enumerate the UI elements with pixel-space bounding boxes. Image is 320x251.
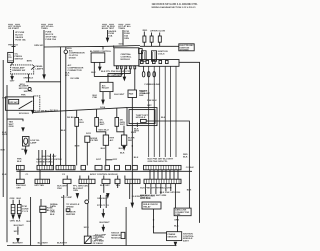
arrows below row2 (76, 194, 78, 198)
right edge wire (179, 62, 200, 223)
fuse F1 labels (8, 32, 26, 47)
cluster feed wires (38, 150, 40, 165)
svg-text:A/C COMP: A/C COMP (61, 196, 72, 199)
svg-text:BLK: BLK (161, 117, 166, 119)
connector column CC2 (152, 51, 157, 61)
svg-text:GRY: GRY (113, 159, 118, 161)
ignition control module box (167, 232, 182, 241)
wire pin2 arrow (123, 69, 125, 77)
svg-text:RELAY: RELAY (143, 205, 151, 208)
svg-text:GRN TAN ORN PPL: GRN TAN ORN PPL (148, 160, 169, 163)
dimmer dashed box (11, 65, 34, 74)
arrows under CN1 CN2 (12, 215, 14, 219)
wire dimmer feed (43, 47, 45, 75)
bottom middle wires (101, 195, 107, 208)
capacitor C1 (85, 136, 90, 142)
instrument band connector (139, 60, 179, 67)
svg-text:SWITCH: SWITCH (15, 58, 24, 60)
wire band W4 (164, 66, 166, 157)
switch lever (19, 101, 33, 109)
central control module U1 (114, 48, 139, 66)
svg-text:10A: 10A (108, 35, 112, 38)
blower controls box (90, 51, 112, 53)
svg-text:BLK: BLK (174, 225, 179, 227)
svg-text:BLU: BLU (79, 122, 84, 124)
svg-text:FAN: FAN (129, 93, 134, 96)
jog wire mid (106, 159, 113, 161)
wire drop to module top (113, 45, 115, 48)
svg-text:GRY TAN: GRY TAN (34, 184, 44, 187)
svg-text:1994 BUICK SKYLARK 3.1L ENGINE: 1994 BUICK SKYLARK 3.1L ENGINE CTRL (152, 3, 199, 6)
resistor box CB2 (121, 135, 126, 145)
svg-text:ORN: ORN (10, 198, 15, 200)
svg-text:S218: S218 (84, 227, 90, 229)
wires from blower box (93, 62, 95, 76)
svg-text:FILTER: FILTER (90, 140, 98, 142)
wire bottom bus S216 (26, 81, 61, 83)
svg-text:WHT GRN: WHT GRN (140, 198, 151, 200)
svg-text:ORN: ORN (124, 38, 129, 40)
fuse component double box (40, 199, 42, 206)
svg-text:ORN: ORN (73, 190, 78, 192)
DLC box (174, 208, 191, 216)
svg-text:FUSE 10A: FUSE 10A (15, 39, 26, 42)
svg-text:PPL: PPL (65, 75, 70, 77)
svg-text:S210 BLU: S210 BLU (19, 113, 30, 115)
svg-text:GRY: GRY (2, 98, 7, 100)
wire pin3 to relay (108, 69, 130, 83)
svg-text:MODULE: MODULE (136, 117, 146, 119)
bottom right bus (174, 242, 176, 245)
svg-text:PRS: PRS (8, 57, 11, 59)
svg-text:PNK BLK: PNK BLK (147, 100, 157, 102)
svg-text:ORN S212: ORN S212 (34, 45, 45, 47)
short drop wire with oval FL4 (143, 66, 145, 71)
resistor branch R1 (76, 110, 78, 117)
resistor branch R2 (96, 109, 98, 117)
svg-text:MODULE: MODULE (121, 59, 131, 61)
wire F3 arrow (107, 30, 109, 38)
wire from dimmer left with arrow (11, 74, 13, 77)
svg-text:MODULE: MODULE (111, 237, 121, 239)
svg-text:BLK: BLK (1, 150, 6, 152)
wire band W5 (170, 66, 172, 157)
indicator lamp L1 (23, 137, 30, 147)
svg-text:SENSOR: SENSOR (167, 236, 177, 238)
svg-text:A/C: A/C (110, 139, 114, 142)
wire module to DLC (146, 121, 189, 208)
svg-text:BLK PNK GRY ORN: BLK PNK GRY ORN (160, 192, 181, 194)
svg-text:LAMPS: LAMPS (36, 68, 44, 71)
wire band W1 (148, 66, 150, 157)
svg-text:DIODE: DIODE (95, 239, 102, 241)
svg-text:BLK PNK GRY: BLK PNK GRY (42, 156, 58, 158)
relay K1 (100, 82, 113, 91)
svg-text:ORN BLK: ORN BLK (97, 198, 107, 200)
svg-text:PNK/BLK: PNK/BLK (8, 45, 18, 47)
svg-text:DATA: DATA (50, 205, 56, 208)
wire band W2 (153, 66, 155, 157)
horn feed line (7, 119, 23, 121)
svg-text:GRY: GRY (147, 105, 152, 107)
svg-text:C280: C280 (175, 214, 181, 216)
connector row 1 (16, 165, 24, 169)
svg-text:CONNECTOR C1: CONNECTOR C1 (36, 161, 54, 163)
svg-text:SWITCH: SWITCH (24, 91, 33, 93)
connector row 2 (16, 179, 24, 183)
svg-text:PNK: PNK (17, 158, 22, 160)
label AFTER GLOW (150, 30, 166, 33)
svg-text:FUSIBLE LINK: FUSIBLE LINK (145, 84, 160, 86)
svg-text:OF DASH: OF DASH (93, 242, 103, 245)
bottom right vertical (125, 207, 127, 246)
svg-text:GRY: GRY (9, 61, 14, 63)
svg-text:RED: RED (143, 30, 148, 32)
long wire from fan box (131, 98, 133, 204)
svg-text:ORN BLK: ORN BLK (23, 78, 33, 80)
svg-text:BLK/WHT: BLK/WHT (38, 243, 49, 245)
svg-text:S217: S217 (96, 159, 102, 161)
module top-right connector tab (139, 49, 143, 54)
svg-text:WHT: WHT (134, 131, 140, 133)
svg-text:DIODE: DIODE (69, 58, 76, 60)
bottom right feed wires (145, 184, 147, 194)
svg-text:S209: S209 (119, 43, 125, 45)
text under row 2 (16, 184, 192, 199)
inline connector oval on W1 (147, 72, 150, 77)
svg-text:BLK/WHT: BLK/WHT (100, 222, 111, 224)
mid cluster wire (60, 47, 62, 165)
theft module box inner (129, 110, 155, 124)
connector dashed column (34, 96, 40, 111)
svg-text:S211: S211 (86, 133, 92, 135)
svg-text:SPEED: SPEED (66, 207, 74, 209)
motor M1 (28, 87, 31, 90)
svg-text:COILS: COILS (158, 54, 165, 56)
svg-text:BRN: BRN (27, 61, 32, 63)
svg-text:ASSY: ASSY (183, 240, 189, 243)
wire from dimmer right (28, 74, 30, 82)
resistor branch R4 (116, 108, 118, 117)
svg-text:CONNECTOR: CONNECTOR (68, 70, 82, 72)
row divider line (16, 170, 192, 172)
arrow end of long wire (131, 203, 133, 207)
svg-text:BRN: BRN (75, 146, 80, 148)
title text (152, 3, 199, 9)
bottom left connector CN1 (10, 198, 22, 200)
coolant fan box B1 (128, 90, 137, 98)
fuse label F3 (102, 23, 114, 25)
svg-text:BLK: BLK (183, 156, 188, 158)
bottom bus line (7, 245, 177, 247)
A/C switch assembly box (6, 97, 34, 110)
svg-text:AFTER GLOW: AFTER GLOW (150, 30, 166, 33)
svg-text:BLK/WHT: BLK/WHT (57, 243, 68, 245)
splice label S214 (100, 106, 106, 109)
svg-text:SYSTEM: SYSTEM (180, 50, 189, 52)
svg-text:BLK: BLK (2, 174, 7, 176)
svg-text:GRN: GRN (9, 126, 14, 128)
splice label (86, 129, 109, 135)
blower motor labels (19, 86, 33, 97)
svg-text:ORN: ORN (174, 220, 179, 222)
theft module box outer (127, 108, 157, 126)
svg-text:ORN: ORN (10, 221, 15, 223)
svg-text:PCM C1 C2: PCM C1 C2 (97, 205, 109, 207)
svg-text:S216: S216 (20, 84, 26, 86)
svg-text:BLK: BLK (50, 214, 55, 216)
svg-text:RES: RES (128, 140, 133, 142)
svg-text:C2 BLK: C2 BLK (186, 167, 194, 169)
ignition label box (179, 44, 194, 51)
svg-text:FUSE 15A: FUSE 15A (46, 38, 57, 41)
wire A/C request (94, 76, 121, 78)
bus arrow (32, 110, 35, 113)
wire band W6 (175, 66, 177, 157)
svg-text:MOTOR: MOTOR (19, 88, 28, 90)
relay box bottom (142, 202, 161, 209)
svg-text:BLK WHT: BLK WHT (114, 94, 125, 96)
svg-text:GRY: GRY (16, 188, 21, 190)
splice labels (61, 130, 66, 132)
wire pin4 to fan box (134, 69, 136, 90)
mid-left long wire (30, 197, 32, 246)
svg-text:OFF A/C: OFF A/C (9, 101, 18, 104)
fusible link FL2 (151, 33, 153, 37)
label ignition coils (158, 51, 168, 55)
knock module labels (95, 234, 106, 242)
wire below relay box (154, 209, 167, 233)
svg-text:DK BLU: DK BLU (67, 117, 76, 119)
svg-text:BLK: BLK (134, 157, 139, 159)
svg-text:BLK: BLK (120, 152, 125, 154)
wire pin1 (120, 69, 122, 77)
svg-text:C1 C2: C1 C2 (22, 211, 29, 213)
fuse label F4 (118, 23, 130, 25)
svg-text:WIRING DIAGRAM SECTION 2 OF 4: WIRING DIAGRAM SECTION 2 OF 4 FIG 21 (152, 6, 197, 9)
svg-text:2 GA: 2 GA (140, 92, 146, 95)
connector column CC1 (142, 51, 147, 61)
relay contact box inside module (141, 119, 147, 122)
wire F4 drop (122, 30, 124, 45)
wire F2 drop (43, 30, 45, 47)
svg-text:BLK/WHT: BLK/WHT (14, 225, 25, 227)
svg-text:S215 BLU: S215 BLU (98, 129, 109, 131)
blower resistor bus (33, 108, 127, 113)
svg-text:OIL: OIL (8, 55, 11, 57)
svg-text:BLK: BLK (61, 130, 66, 132)
oil pressure switch box (8, 52, 14, 62)
inline connector oval on W2 (153, 72, 156, 77)
svg-text:BLK/WHT: BLK/WHT (13, 243, 24, 245)
fusible link FL1 (143, 30, 148, 32)
svg-text:WHT: WHT (2, 134, 8, 136)
svg-text:BLK: BLK (22, 149, 27, 151)
ground G1 (65, 47, 67, 50)
fuse label F2 HOT AT ALL TIMES (41, 23, 53, 25)
splice dot on long wire (132, 145, 133, 146)
svg-text:DK GRN: DK GRN (71, 78, 80, 80)
fuse label F1 HOT IN RUN (8, 23, 20, 25)
svg-text:DIMMER SW: DIMMER SW (12, 70, 26, 72)
svg-text:BLK: BLK (17, 198, 22, 200)
wire labels above right row (148, 158, 174, 162)
ground G2 (85, 200, 89, 204)
svg-text:BUFFER: BUFFER (66, 214, 75, 216)
splice bus S212-S209 (44, 46, 103, 49)
svg-text:LAMP: LAMP (30, 141, 37, 144)
fusible link FL3 (159, 33, 161, 37)
wire splice S217 (17, 227, 19, 235)
wire from G1 down (65, 54, 67, 166)
switch wiper symbol (31, 66, 35, 69)
svg-text:BLK: BLK (16, 221, 21, 223)
svg-text:BLK: BLK (17, 161, 22, 163)
svg-text:BLK: BLK (101, 148, 106, 150)
wire bus to ignition box (140, 45, 179, 47)
wire from module bottom (123, 126, 125, 132)
inter-row stubs (20, 170, 178, 179)
svg-text:TIMES: TIMES (41, 28, 48, 30)
svg-text:BLK: BLK (119, 148, 124, 150)
left main wire 2 (6, 85, 8, 242)
svg-text:PNK: PNK (21, 95, 26, 97)
wires from relay (102, 92, 104, 100)
extra wire labels (2, 98, 188, 176)
svg-text:GRY: GRY (10, 80, 15, 82)
bottom left connector CN2 (17, 205, 21, 214)
wire band W3 (159, 66, 161, 157)
DLC feed wires (165, 184, 167, 191)
svg-text:OR START: OR START (8, 27, 20, 30)
serial data wire (63, 195, 65, 246)
wire fuse F1 drop (13, 30, 15, 52)
svg-text:BLK: BLK (27, 221, 32, 223)
svg-text:PNK: PNK (57, 188, 62, 190)
svg-text:WHT: WHT (120, 124, 126, 126)
svg-text:BLK: BLK (91, 72, 96, 74)
wires below row2 (66, 184, 68, 196)
svg-text:WHT: WHT (100, 124, 106, 126)
svg-text:RELAY: RELAY (102, 87, 110, 90)
svg-text:S217: S217 (14, 231, 20, 233)
wire below module (136, 122, 138, 127)
left main wire 1 (2, 60, 4, 197)
blower box CB1 (103, 135, 108, 145)
A/C compressor connector labels (65, 64, 84, 80)
ground block G201 (84, 236, 91, 243)
small inline box (66, 209, 70, 212)
svg-text:PNK: PNK (93, 97, 98, 99)
pin boxes of U1 (116, 66, 118, 69)
connector arrow A1 (43, 75, 45, 79)
svg-text:BLK: BLK (187, 189, 192, 191)
svg-text:BLK GRY: BLK GRY (100, 185, 110, 187)
